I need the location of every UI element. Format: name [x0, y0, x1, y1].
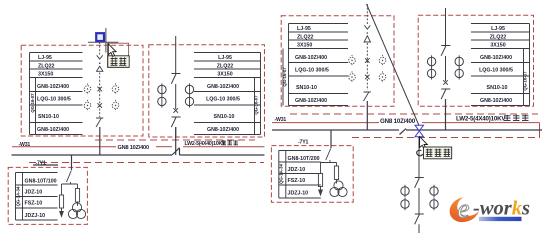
wire drop box1 to busbar [99, 127, 101, 155]
table bottom-middle labels [279, 156, 320, 197]
fuse F1 (arrester branch) [61, 184, 63, 195]
svg-text:GN8-10Z/400: GN8-10Z/400 [37, 84, 69, 90]
tooltip 最近点 (nearest point) [424, 147, 452, 159]
table bottom-left labels [15, 178, 56, 218]
CT C2c [185, 83, 193, 95]
CT C5a [401, 185, 409, 197]
table box4 grid [471, 24, 530, 106]
svg-text:3X150: 3X150 [297, 42, 312, 48]
cabinet outline bottom-left VT cabinet [8, 167, 87, 224]
svg-text:-W31: -W31 [19, 142, 31, 148]
svg-text:GN8-10Z/400: GN8-10Z/400 [207, 127, 239, 133]
disconnector lower bay bottom [415, 214, 424, 224]
table box1 labels [30, 55, 71, 133]
busbar dark right (10kV) [272, 129, 399, 131]
glyph 近 [435, 149, 442, 157]
svg-text:JDZJ-10: JDZJ-10 [25, 213, 46, 219]
disconnector VT2 [326, 149, 331, 161]
bay box4 riser [441, 8, 450, 106]
e-works logo swoosh [446, 192, 530, 227]
svg-text:ZLQ22: ZLQ22 [217, 63, 234, 69]
svg-text:JDZ-10: JDZ-10 [288, 167, 306, 173]
fuse F3 (arrester branch) [320, 163, 322, 174]
tooltip 端点 (endpoint) [108, 56, 129, 68]
svg-text:GN8-10Z/400: GN8-10Z/400 [480, 98, 512, 104]
glyph 最 [426, 149, 433, 157]
CT C1d (dashed) [112, 100, 119, 111]
wire drop box4 to busbar [445, 99, 447, 130]
svg-text:GN8 10Z/400: GN8 10Z/400 [380, 118, 416, 125]
dashed net line right lower (-7Y1 bus outline) [352, 137, 540, 139]
disconnector box2 top [171, 74, 180, 84]
svg-text:GN8-10T/100: GN8-10T/100 [25, 178, 57, 184]
wire drop busbar to bottom-middle VT cabinet [330, 130, 332, 148]
table box3 grid [283, 24, 348, 106]
CT C2d [185, 95, 193, 107]
dashed net line right upper [290, 113, 538, 115]
svg-text:LQG-10 300/5: LQG-10 300/5 [206, 97, 240, 103]
node dot [99, 62, 101, 64]
cursor hook mark left of tooltip [417, 150, 423, 155]
breaker mark box2 [173, 108, 178, 113]
svg-text:GN8-10Z/400: GN8-10Z/400 [480, 55, 512, 61]
busbar dark left (10kV) [12, 99, 542, 170]
wire dashed riser segment 2 [99, 73, 101, 118]
dashed net line left upper [95, 139, 255, 141]
CT C4a [427, 55, 435, 67]
svg-text:LQG-10 300/5: LQG-10 300/5 [479, 68, 513, 74]
wire dashed riser box1 [99, 42, 101, 55]
delta winding triangle box3 [364, 36, 370, 42]
breaker mark box3 upper [365, 58, 370, 63]
table box2 grid [194, 53, 261, 135]
glyph 点 (2) [444, 149, 451, 157]
cabinet outline box2 [149, 45, 265, 137]
svg-text:LQG-10 300/5: LQG-10 300/5 [295, 68, 329, 74]
bay box2 riser [171, 36, 180, 137]
fuse F2 (VT branch) [77, 184, 79, 189]
svg-text:QG-1A-34: QG-1A-34 [15, 186, 20, 206]
table bottom-left grid [16, 173, 58, 221]
dashed net line left lower (-7Y1 bus outline) [29, 162, 264, 164]
svg-text:SN10-10: SN10-10 [214, 114, 235, 120]
arrester chevron [97, 55, 103, 59]
svg-text:ZLQ22: ZLQ22 [38, 63, 55, 69]
disconnector box2 bottom [171, 117, 180, 127]
CT C3c (dashed) [379, 55, 386, 66]
disconnector GN8 on left busbar [172, 148, 265, 155]
bottom-left VT cabinet internals [59, 171, 79, 217]
svg-text:3X150: 3X150 [38, 71, 53, 77]
CT C4b [427, 67, 435, 79]
svg-text:LJ-95: LJ-95 [491, 26, 505, 32]
svg-text:FSZ-10: FSZ-10 [288, 178, 306, 184]
breaker mark box4 [443, 80, 448, 85]
svg-text:QG-16-07: QG-16-07 [254, 95, 259, 115]
rubber-band line from grip to nearest point [367, 4, 420, 126]
table box1 grid [30, 53, 83, 135]
svg-text:SN10-10: SN10-10 [38, 114, 59, 120]
table box2 labels [206, 55, 258, 133]
glyphs 汇流排 right [504, 115, 529, 121]
nearest-point snap marker (blue hourglass) [415, 125, 424, 136]
voltage transformer TV2 (three circles) [330, 181, 347, 197]
surge arrester arrow 2 [319, 190, 323, 195]
wire drop busbar to bottom-left VT cabinet [71, 155, 73, 170]
CT C2b [158, 95, 166, 107]
svg-text:ZLQ22: ZLQ22 [490, 34, 507, 40]
lower-right incoming bay riser [415, 138, 424, 234]
svg-text:-7Y1: -7Y1 [36, 161, 46, 167]
svg-text:GN8-10Z/400: GN8-10Z/400 [295, 98, 327, 104]
disconnector box1 bottom [96, 118, 103, 127]
svg-text:GN8-10Z/400: GN8-10Z/400 [207, 84, 239, 90]
table bottom-middle grid [279, 151, 321, 199]
svg-text:-W31: -W31 [275, 117, 287, 123]
disconnector box4 top [441, 46, 450, 56]
glyph 点 [119, 57, 126, 65]
disconnector box3 bottom [364, 92, 371, 101]
logo blue bar [479, 217, 522, 221]
CT C3a (dashed) [349, 55, 356, 66]
CT C3b (dashed) [349, 71, 356, 82]
svg-text:-works: -works [473, 198, 530, 220]
surge arrester arrow [60, 212, 64, 217]
svg-text:LW2-5(4X40)10KV: LW2-5(4X40)10KV [456, 115, 506, 122]
disconnector box4 bottom [441, 89, 450, 99]
CT C4d [455, 67, 463, 79]
svg-text:LJ-95: LJ-95 [38, 55, 52, 61]
disconnector VT1 [67, 171, 72, 183]
delta winding triangle [97, 66, 103, 71]
svg-text:GN8-10T/200: GN8-10T/200 [288, 156, 320, 162]
cabinet outline box1 [21, 45, 143, 136]
disconnector lower bay top [415, 178, 424, 188]
node dot box3 [367, 32, 369, 34]
CT C5b [401, 198, 409, 210]
CT C1c (dashed) [112, 83, 119, 94]
crosshair cursor at grip [88, 28, 118, 53]
svg-text:SN10-10: SN10-10 [487, 85, 508, 91]
wire drop box3 to busbar [366, 101, 368, 130]
disconnector GN8 on right busbar [400, 129, 542, 135]
CT C3d (dashed) [379, 71, 386, 82]
CT C4c [455, 55, 463, 67]
table box4 labels [479, 26, 527, 104]
bay box1 (selected, dashed) [97, 42, 103, 117]
wire drop box2 to busbar [175, 127, 177, 155]
wire red feeder -W31 left [12, 123, 540, 147]
CT C1b (dashed) [84, 100, 91, 111]
cabinet outline box4 [418, 15, 533, 106]
svg-text:QG-16-07: QG-16-07 [282, 67, 287, 87]
svg-text:-7Y1: -7Y1 [298, 139, 308, 145]
bottom-middle VT cabinet internals [318, 149, 338, 196]
svg-text:ZLQ22: ZLQ22 [297, 34, 314, 40]
svg-text:QG-16-07: QG-16-07 [522, 71, 527, 91]
svg-text:GN8 10Z/400: GN8 10Z/400 [118, 145, 149, 151]
svg-text:LW2-5(4X40)10KV: LW2-5(4X40)10KV [185, 141, 227, 147]
svg-text:3X150: 3X150 [217, 71, 232, 77]
CT C5c [430, 185, 438, 197]
svg-text:GN8-10Z/400: GN8-10Z/400 [37, 127, 69, 133]
arrester chevron box3 [364, 25, 370, 29]
svg-text:e: e [458, 194, 470, 224]
bay box3 (dashed) [364, 4, 370, 90]
pointer arrow at grip [108, 44, 116, 57]
table box3 labels [282, 26, 329, 104]
CT C1a (dashed) [84, 83, 91, 94]
CT C5d [430, 198, 438, 210]
pointer arrow at nearest point [420, 137, 428, 150]
fuse F4 (VT branch) [336, 163, 338, 167]
svg-text:JDZ-10: JDZ-10 [25, 190, 43, 196]
breaker mark box1 lower [97, 103, 102, 108]
svg-text:3X150: 3X150 [490, 42, 505, 48]
svg-text:LQG-10 300/5: LQG-10 300/5 [37, 97, 71, 103]
wire -7Y1 label underline left [33, 164, 58, 166]
wire dashed riser box3 [366, 43, 368, 90]
grip (endpoint snap marker, blue square) [96, 33, 104, 41]
aperture box outline [108, 43, 129, 67]
wire red right corner drop [539, 123, 541, 138]
svg-text:JDZJ-10: JDZJ-10 [288, 191, 309, 197]
svg-text:SN10-10: SN10-10 [296, 85, 317, 91]
svg-text:QG-1A-34: QG-1A-34 [279, 163, 284, 183]
svg-text:LJ-95: LJ-95 [218, 55, 232, 61]
svg-text:QG-16-07: QG-16-07 [30, 93, 35, 113]
glyph 端 [111, 57, 118, 65]
breaker mark box3 lower [365, 75, 370, 80]
cabinet outline bottom-middle VT cabinet [271, 146, 353, 203]
cabinet outline box3 [281, 16, 394, 107]
voltage transformer TV1 (three circles) [68, 203, 85, 219]
svg-text:LJ-95: LJ-95 [297, 26, 311, 32]
svg-text:GN8-10Z/400: GN8-10Z/400 [295, 55, 327, 61]
svg-text:FSZ-10: FSZ-10 [25, 201, 43, 207]
glyphs 汇流排 left [222, 140, 239, 145]
CT C2a [158, 83, 166, 95]
wire red feeder -W31 right [272, 122, 379, 124]
breaker mark box1 upper [97, 87, 102, 92]
